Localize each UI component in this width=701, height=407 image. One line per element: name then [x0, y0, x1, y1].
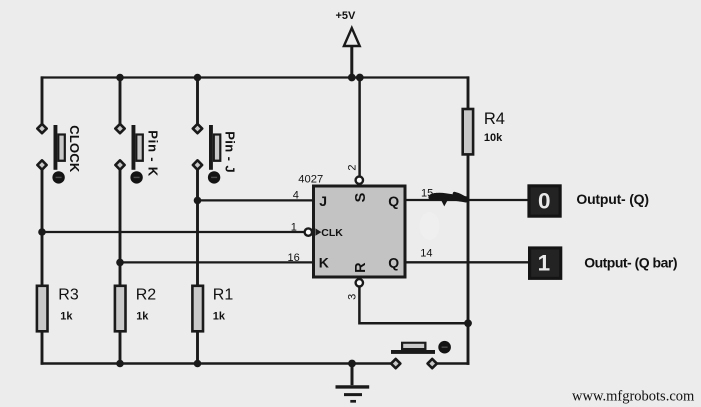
svg-text:Pin - K: Pin - K: [146, 130, 161, 177]
node: junction J line / Pin-J column: [194, 197, 202, 205]
node: junction CLK line / CLOCK column: [38, 228, 46, 236]
node: junction R1 lead / ground rail: [194, 360, 202, 368]
svg-text:R3: R3: [58, 286, 79, 303]
svg-text:R1: R1: [213, 286, 234, 303]
node: junction pin-3 line / right column: [464, 319, 472, 327]
power symbol: +5V arrow: [344, 28, 360, 46]
wire: Q output pin 15 to box 0: [406, 199, 529, 201]
annotation: whiteout patch under scribble: [420, 212, 440, 240]
wire: CLOCK column lower (switch to R3): [41, 169, 44, 286]
switch SW3 Pin-J: [193, 124, 222, 184]
wire: ground rail (bottom horizontal): [41, 362, 392, 364]
wire: R1 bottom lead: [196, 332, 199, 365]
svg-text:10k: 10k: [484, 132, 503, 144]
svg-text:14: 14: [420, 248, 432, 260]
svg-text:Output- (Q): Output- (Q): [576, 191, 648, 207]
wire: Pin-K column upper stub: [119, 78, 122, 126]
svg-text:Q: Q: [388, 255, 399, 271]
svg-text:R2: R2: [136, 286, 157, 303]
wire: CLOCK column upper stub: [41, 76, 44, 125]
svg-text:Output- (Q bar): Output- (Q bar): [584, 255, 677, 271]
wire: CLK line from CLOCK switch to IC pin 1: [42, 231, 304, 233]
indicator: output box 0: [527, 184, 561, 217]
pin bubble: CLK (pin 1): [305, 228, 312, 235]
resistor R4: [463, 109, 473, 154]
wire: right column top (rail corner to R4): [467, 76, 470, 109]
svg-text:CLK: CLK: [321, 227, 343, 239]
wire: S pin 2 drop from +5V rail: [358, 78, 361, 177]
pin bubble: R (pin 3): [356, 279, 363, 286]
wire: Pin-K column lower (switch to R2): [119, 169, 122, 286]
svg-text:+5V: +5V: [336, 10, 357, 22]
wire: K line from Pin-K switch to IC pin 16: [120, 261, 313, 263]
pin bubble: S (pin 2): [356, 177, 363, 184]
annotation: scribble blob: [431, 193, 443, 200]
svg-text:4027: 4027: [298, 174, 323, 186]
svg-text:1: 1: [291, 221, 297, 233]
node: junction Pin-J column / +5V rail: [194, 74, 202, 82]
svg-text:0: 0: [538, 188, 551, 213]
svg-text:16: 16: [288, 252, 300, 264]
resistor R2: [115, 286, 126, 332]
node: junction +5V stem / rail: [348, 74, 356, 82]
op: IC U1 4027 JK flip-flop body: [314, 186, 406, 277]
svg-text:1k: 1k: [213, 311, 226, 323]
node: junction R2 lead / ground rail: [116, 360, 124, 368]
svg-text:Pin - J: Pin - J: [223, 131, 238, 173]
ground: [336, 364, 370, 402]
svg-text:K: K: [319, 255, 329, 271]
svg-text:3: 3: [347, 294, 359, 300]
node: junction ground symbol / ground rail: [348, 360, 356, 368]
node: junction Pin-K column / +5V rail: [116, 74, 124, 82]
wire: Q-bar output pin 14 to box 1: [406, 261, 530, 263]
resistor R3: [37, 286, 48, 332]
wire: J line from Pin-J switch to IC pin 4: [198, 199, 314, 201]
wire: reset button right lead: [435, 362, 469, 364]
svg-text:R: R: [353, 262, 369, 273]
wire: R pin 3 drop and run to right column: [359, 287, 468, 324]
wire: R3 bottom lead: [41, 332, 44, 365]
svg-text:R4: R4: [484, 110, 505, 128]
svg-text:2: 2: [346, 164, 358, 170]
wire: right column below R4 down to reset button corner: [467, 155, 470, 365]
wire: R2 bottom lead: [119, 332, 122, 365]
pin marker: clock edge triangle: [315, 228, 321, 235]
switch SW4 reset (bottom): [391, 341, 451, 368]
indicator: output box 1: [528, 246, 562, 280]
svg-text:1k: 1k: [136, 311, 149, 323]
switch SW2 Pin-K: [115, 124, 144, 184]
wire: Pin-J column lower (switch to R1): [196, 169, 199, 286]
wire: Pin-J column upper stub: [196, 78, 199, 126]
svg-text:1k: 1k: [60, 311, 73, 323]
svg-text:1: 1: [538, 251, 551, 276]
svg-text:4: 4: [293, 190, 299, 202]
resistor R1: [192, 286, 203, 332]
wire: +5V supply stem: [350, 46, 353, 79]
wire: +5V rail (top horizontal): [41, 76, 469, 78]
annotation: pen scribble over pin-15 wire: [432, 194, 467, 204]
node: junction K line / Pin-K column: [116, 259, 124, 267]
svg-text:www.mfgrobots.com: www.mfgrobots.com: [572, 389, 695, 405]
svg-text:CLOCK: CLOCK: [67, 125, 82, 173]
node: junction S drop / rail: [356, 74, 364, 82]
svg-text:Q: Q: [388, 193, 399, 209]
switch SW1 CLOCK: [37, 124, 66, 184]
svg-text:S: S: [353, 192, 369, 202]
svg-text:J: J: [319, 193, 327, 209]
